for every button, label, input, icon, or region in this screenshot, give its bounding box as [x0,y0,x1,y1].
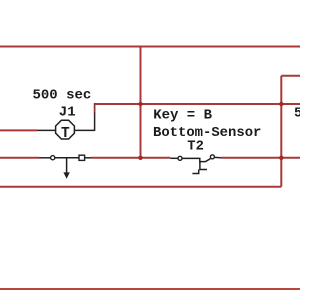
timer J1 pin left [37,129,56,131]
switch T2 right terminal circle [210,155,214,159]
svg-text:T: T [61,126,70,142]
svg-text:T2: T2 [187,140,204,155]
switch S1 blade [55,157,79,159]
wire top right stub [281,75,300,77]
switch T2 left terminal circle [178,156,182,160]
wire switch rail left red [0,157,39,159]
junction at 281/104 [279,102,283,106]
switch S1 pin right [85,157,91,159]
svg-text:Key = B: Key = B [153,108,212,124]
wire left to timer J1 [0,129,37,131]
switch T2 latch crank [200,162,207,170]
junction at 140/104 [138,102,142,106]
switch T2 blade [182,158,210,161]
wire rail y186 [0,186,281,188]
svg-text:Bottom-Sensor: Bottom-Sensor [153,125,261,141]
switch T2 pin left [170,157,178,159]
switch S1 actuator stem [66,158,68,173]
switch S1 left terminal circle [51,156,55,160]
timer J1 pin right [74,129,95,131]
switch T2 latch crank lower [192,170,198,174]
wire top supply rail [0,46,300,48]
svg-text:J1: J1 [59,105,76,121]
switch S1 pin left [39,157,51,159]
switch S1 right terminal square [79,155,85,160]
wire bottom rail [0,288,300,290]
wire riser red top part [94,103,96,113]
wire rail y104 [95,103,300,105]
wire vertical drop from top rail [140,47,142,158]
wire vertical right box [280,76,282,187]
switch S1 actuator arrow head [63,172,69,178]
switch T2 pin right [215,156,222,158]
svg-text:50: 50 [294,107,300,122]
timer J1 octagon body [56,120,75,139]
wire riser from timer to rail y104 black part [94,112,96,131]
svg-text:500 sec: 500 sec [33,87,92,103]
junction at 281/158 [279,156,283,160]
wire switch rail right red [221,157,300,159]
junction at 140/158 [138,156,142,160]
wire switch rail middle red [91,157,170,159]
